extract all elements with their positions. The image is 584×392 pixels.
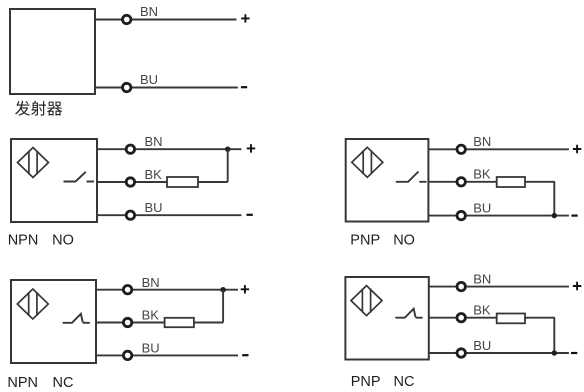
resistor R load (NPN NO) (167, 177, 198, 187)
wire BU (PNP NC) (429, 352, 569, 354)
junction dot on BU (PNP NC) (552, 350, 557, 355)
sensor symbol diamond NPN NO (18, 148, 49, 178)
svg-text:NPN: NPN (8, 233, 39, 249)
sensor symbol diamond PNP NC (351, 286, 382, 316)
wire BN (PNP NO) (428, 148, 569, 150)
emitter box U1 发射器 (10, 9, 95, 94)
sensor box PNP NO (346, 139, 429, 222)
terminal circle BN emitter (123, 15, 131, 23)
minus terminal (PNP NC) (571, 352, 577, 354)
sensor symbol diamond NPN NC (17, 289, 48, 319)
svg-text:NC: NC (394, 374, 415, 390)
sensor symbol diamond PNP NO (352, 147, 383, 177)
switch contact NO (NPN) (64, 172, 95, 182)
switch contact NC (PNP) (395, 309, 422, 318)
minus terminal (NPN NO) (247, 214, 253, 216)
svg-text:PNP: PNP (351, 374, 381, 390)
terminal circle BN (PNP NC) (457, 282, 465, 290)
svg-text:NPN: NPN (7, 375, 38, 391)
junction dot on BN (NPN NO) (225, 147, 230, 152)
plus terminal (PNP NC) (573, 282, 581, 290)
wire BN (NPN NO) (97, 148, 241, 150)
svg-text:BU: BU (473, 338, 491, 353)
resistor R load (PNP NC) (497, 314, 525, 324)
wire BN (PNP NC) (429, 286, 569, 288)
minus terminal (PNP NO) (571, 215, 577, 217)
svg-text:BK: BK (145, 167, 163, 182)
wire vertical drop to BU (PNP NO) (553, 182, 555, 216)
wire resistor to junction (NPN NC) (194, 322, 223, 324)
plus terminal (PNP NO) (573, 145, 581, 153)
sensor box NPN NC (11, 280, 96, 363)
sensor box PNP NC (345, 277, 428, 360)
wire resistor to drop (PNP NO) (525, 181, 555, 183)
plus terminal (NPN NO) (247, 144, 255, 152)
terminal circle BK (PNP NO) (457, 178, 465, 186)
svg-text:BU: BU (140, 72, 158, 87)
wire vertical drop to BU (PNP NC) (553, 318, 555, 353)
wire BU emitter (95, 87, 238, 89)
svg-text:BN: BN (145, 134, 163, 149)
wire resistor to junction (NPN NO) (198, 181, 228, 183)
terminal circle BN (NPN NC) (123, 286, 131, 294)
terminal circle BU (NPN NC) (123, 351, 131, 359)
wire BK (PNP NO) (428, 181, 496, 183)
junction dot on BN (NPN NC) (220, 287, 225, 292)
plus terminal (NPN NC) (241, 285, 249, 293)
wire BN (NPN NC) (96, 289, 238, 291)
wire BU (NPN NC) (96, 354, 238, 356)
svg-text:BK: BK (473, 167, 491, 182)
resistor R load (PNP NO) (497, 177, 525, 187)
terminal circle BU (PNP NO) (457, 211, 465, 219)
terminal circle BN (PNP NO) (457, 145, 465, 153)
switch contact NO (PNP) (396, 172, 427, 182)
junction dot on BU (PNP NO) (552, 213, 557, 218)
svg-text:BN: BN (140, 4, 158, 19)
switch contact NC (NPN) (63, 314, 90, 323)
wire BU (PNP NO) (428, 215, 569, 217)
terminal circle BK (PNP NC) (457, 314, 465, 322)
minus terminal (NPN NC) (242, 354, 248, 356)
terminal circle BK (NPN NO) (126, 178, 134, 186)
svg-text:BK: BK (473, 303, 491, 318)
terminal circle BK (NPN NC) (123, 318, 131, 326)
wire BU (NPN NO) (97, 214, 241, 216)
svg-text:BU: BU (142, 341, 160, 356)
svg-text:NC: NC (53, 375, 74, 391)
svg-text:NO: NO (393, 233, 415, 249)
svg-text:PNP: PNP (350, 233, 380, 249)
plus terminal emitter (241, 14, 249, 22)
wire BK (NPN NO) (97, 181, 167, 183)
sensor box NPN NO (11, 139, 97, 222)
wire vertical junction drop (NPN NC) (222, 290, 224, 323)
wire BK (NPN NC) (96, 322, 165, 324)
wire BK (PNP NC) (429, 317, 497, 319)
svg-text:NO: NO (52, 233, 74, 249)
svg-text:BU: BU (473, 200, 491, 215)
wire BN emitter (95, 19, 237, 21)
svg-text:BK: BK (142, 308, 160, 323)
minus terminal emitter (241, 86, 247, 88)
terminal circle BN (NPN NO) (126, 145, 134, 153)
wire resistor to drop (PNP NC) (525, 317, 555, 319)
svg-text:BU: BU (145, 200, 163, 215)
wire vertical junction drop (NPN NO) (227, 149, 229, 182)
label 发射器 (15, 101, 62, 116)
svg-text:BN: BN (142, 275, 160, 290)
terminal circle BU emitter (123, 83, 131, 91)
resistor R load (NPN NC) (165, 318, 194, 327)
svg-text:BN: BN (473, 134, 491, 149)
terminal circle BU (PNP NC) (457, 349, 465, 357)
terminal circle BU (NPN NO) (126, 211, 134, 219)
svg-text:BN: BN (473, 271, 491, 286)
